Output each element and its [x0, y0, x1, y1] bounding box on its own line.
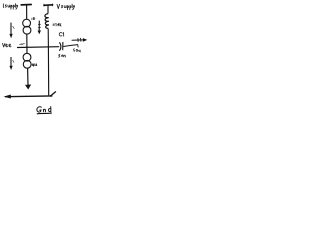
- supply rail bar (right T): [44, 4, 53, 7]
- inductor L1 coil: [45, 14, 49, 29]
- current source M1 (stacked circles): [23, 19, 31, 27]
- capacitor C1 left plate (curved): [59, 42, 61, 51]
- label Gnd: [37, 107, 51, 112]
- label Vsupply: [57, 4, 75, 10]
- label ib (tiny): [32, 17, 35, 19]
- load label 50ohm: [74, 49, 81, 52]
- arrowhead to ground: [25, 85, 31, 90]
- wire from right T down: [47, 5, 49, 14]
- node label Vee: [3, 43, 12, 47]
- wire node down to ground: [47, 47, 49, 95]
- wire from left T down: [26, 5, 28, 19]
- output arrow: [72, 39, 84, 41]
- label C1: [59, 33, 64, 37]
- current arrow I2 (left lower): [10, 57, 12, 67]
- capacitor C1 right plate: [62, 42, 64, 50]
- Vee wire (horizontal): [17, 46, 59, 49]
- capacitor value label: [58, 54, 65, 57]
- current arrow Isupply (left): [10, 23, 12, 35]
- supply rail bar (left T): [21, 4, 31, 6]
- wire inductor to Vee node: [47, 29, 49, 47]
- node scribble vw: [20, 44, 25, 45]
- wire M2 to ground arrow: [27, 68, 29, 85]
- ground rail left arrowhead: [4, 95, 11, 99]
- ground rail wire: [5, 95, 52, 98]
- wire between sources: [26, 34, 28, 53]
- ground rail right tick: [50, 92, 56, 97]
- label Isupply: [3, 4, 17, 10]
- current source M2 (stacked circles): [23, 53, 31, 61]
- label M2 (tiny): [32, 64, 37, 67]
- inductor value label: [53, 23, 61, 26]
- current arrow I1: [38, 21, 41, 32]
- wire capacitor to output: [63, 45, 78, 47]
